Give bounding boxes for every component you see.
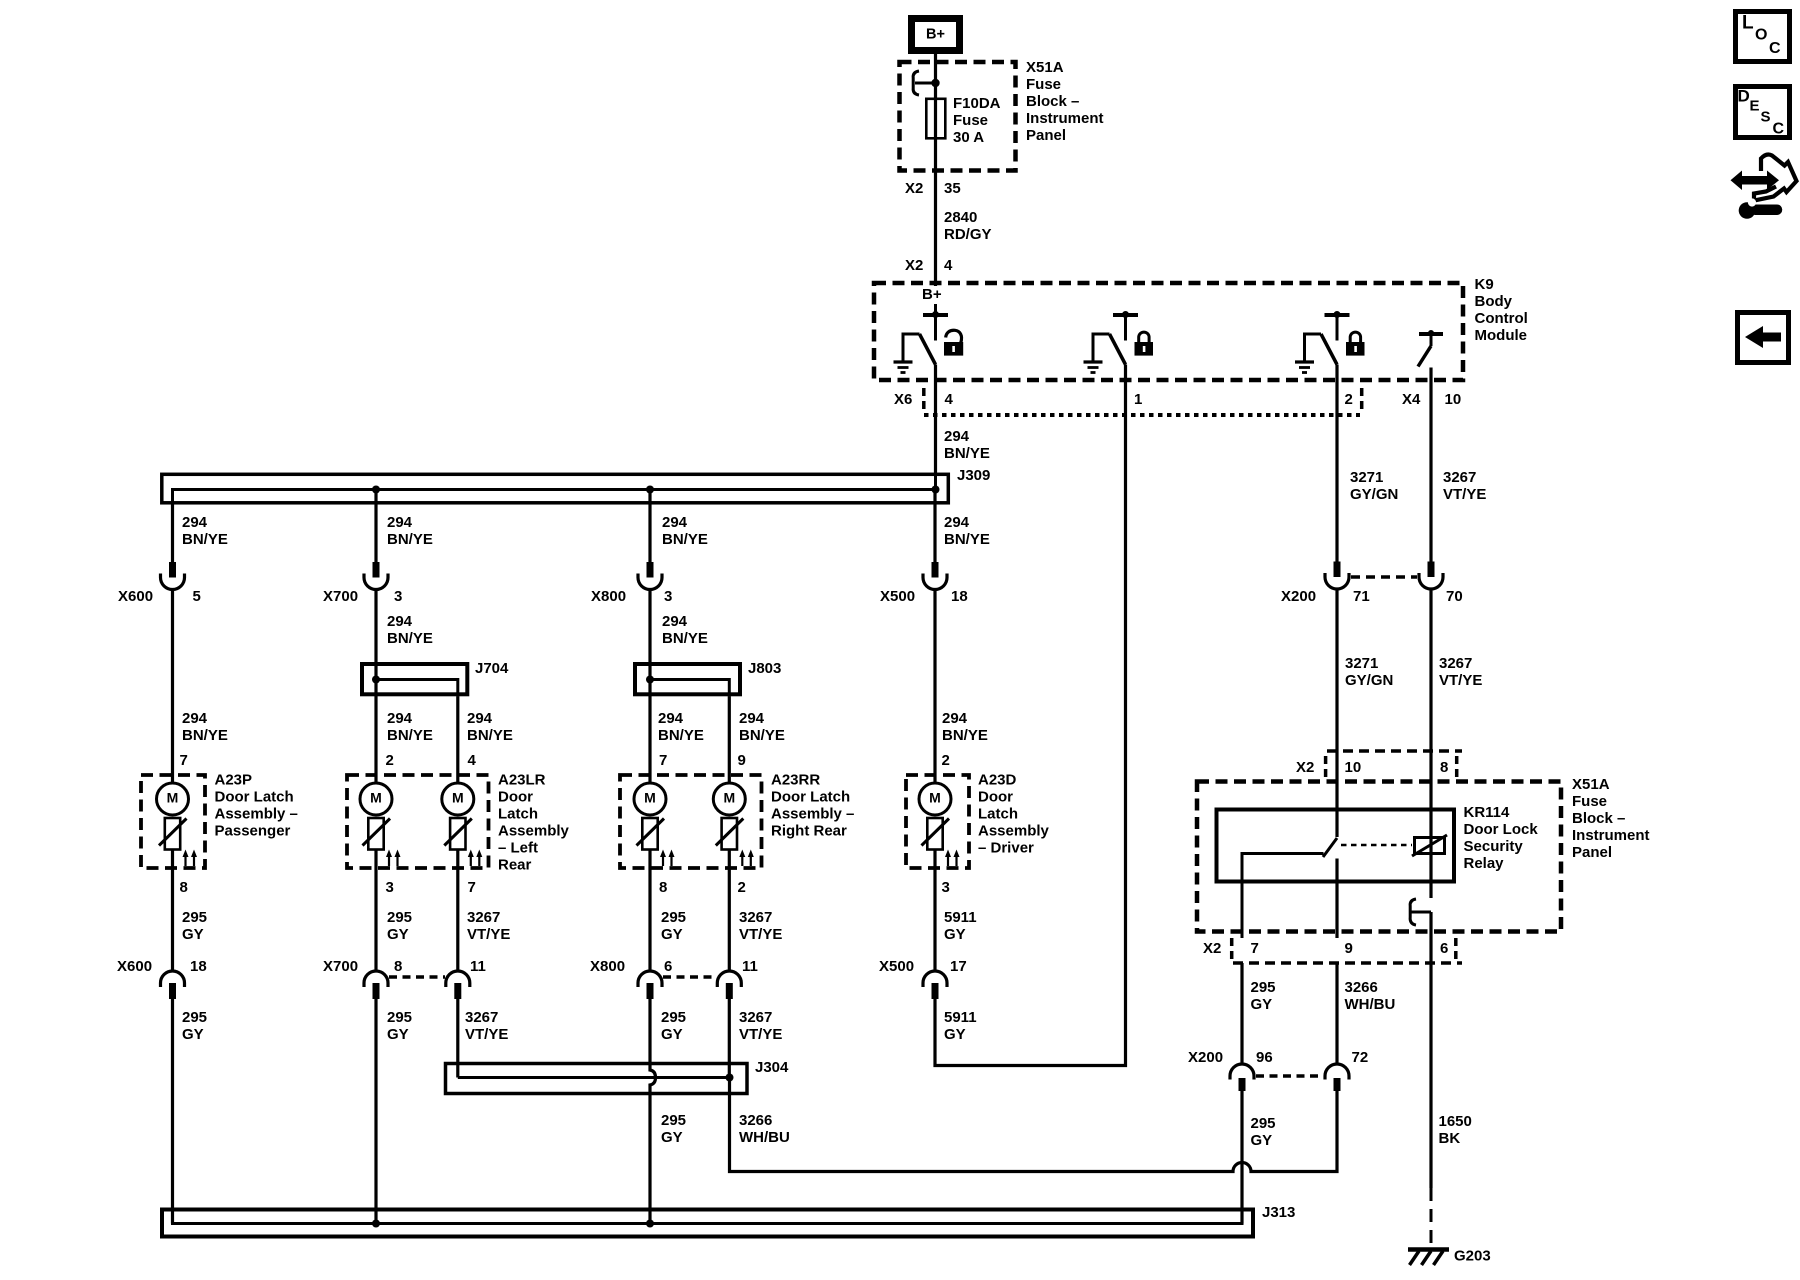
- door-latch motor M at x=650: [634, 783, 666, 815]
- svg-text:X2: X2: [905, 257, 923, 274]
- X200 96/72 link dashes: [1256, 1074, 1322, 1078]
- svg-text:X600: X600: [117, 958, 152, 975]
- connector X700-11: [446, 971, 470, 987]
- ground symbol: [894, 360, 913, 363]
- svg-text:18: 18: [190, 958, 207, 975]
- svg-text:GY: GY: [387, 1026, 409, 1043]
- BCM switch 4 (X4-10 output): [1428, 330, 1434, 336]
- svg-text:WH/BU: WH/BU: [739, 1129, 790, 1146]
- svg-text:C: C: [1769, 40, 1781, 57]
- svg-text:5911: 5911: [944, 1009, 977, 1026]
- door-latch motor M at x=376: [360, 783, 392, 815]
- svg-text:S: S: [1761, 109, 1771, 126]
- svg-text:295: 295: [661, 909, 686, 926]
- fuse clip symbol: [913, 71, 919, 95]
- svg-text:GY: GY: [1251, 1132, 1273, 1149]
- svg-text:295: 295: [1251, 1115, 1276, 1132]
- svg-text:B+: B+: [922, 286, 942, 303]
- wire: X500-18 to A23D: [933, 590, 936, 784]
- svg-text:3: 3: [942, 879, 950, 896]
- svg-text:295: 295: [387, 1009, 412, 1026]
- svg-text:295: 295: [661, 1009, 686, 1026]
- svg-text:71: 71: [1353, 588, 1370, 605]
- connector X700-11 link: [389, 975, 445, 979]
- svg-text:3267: 3267: [1443, 469, 1476, 486]
- door-latch motor M at x=935: [919, 783, 951, 815]
- wire: switch1 output down (294 BN/YE): [934, 365, 937, 473]
- svg-text:GY/GN: GY/GN: [1345, 672, 1393, 689]
- svg-text:X51A: X51A: [1026, 59, 1064, 76]
- svg-text:Assembly –: Assembly –: [771, 806, 854, 823]
- svg-text:X800: X800: [591, 588, 626, 605]
- wire: J309 to X500-18: [933, 490, 936, 563]
- svg-text:X700: X700: [323, 958, 358, 975]
- svg-text:D: D: [1738, 87, 1750, 106]
- svg-text:3266: 3266: [1345, 979, 1378, 996]
- svg-text:Assembly –: Assembly –: [215, 806, 298, 823]
- connector X500-17: [923, 971, 947, 987]
- lock actuator (PTC) symbol: [368, 818, 383, 850]
- svg-text:C: C: [1773, 120, 1785, 137]
- svg-text:J704: J704: [475, 660, 509, 677]
- svg-text:8: 8: [659, 879, 667, 896]
- svg-text:– Left: – Left: [498, 840, 538, 857]
- lock actuator (PTC) symbol: [927, 818, 942, 850]
- svg-text:WH/BU: WH/BU: [1345, 996, 1396, 1013]
- svg-text:2: 2: [738, 879, 746, 896]
- svg-text:Fuse: Fuse: [1572, 793, 1607, 810]
- double up-arrows: [184, 853, 186, 866]
- svg-text:M: M: [370, 790, 382, 806]
- wire: switch4 output down to X200-70: [1429, 368, 1432, 562]
- svg-text:Block –: Block –: [1026, 93, 1079, 110]
- svg-text:3267: 3267: [1439, 655, 1472, 672]
- svg-text:11: 11: [742, 958, 758, 975]
- svg-text:17: 17: [950, 958, 967, 975]
- svg-text:X500: X500: [880, 588, 915, 605]
- svg-text:BN/YE: BN/YE: [944, 445, 990, 462]
- door-latch motor M at x=172.5: [157, 783, 189, 815]
- svg-text:3266: 3266: [739, 1112, 772, 1129]
- svg-text:72: 72: [1352, 1049, 1369, 1066]
- svg-text:18: 18: [951, 588, 968, 605]
- relay common wire: [1242, 854, 1324, 939]
- relay coil: [1415, 838, 1445, 854]
- svg-text:K9: K9: [1475, 276, 1494, 293]
- svg-text:Latch: Latch: [978, 806, 1018, 823]
- svg-text:Instrument: Instrument: [1572, 827, 1650, 844]
- svg-text:7: 7: [659, 752, 667, 769]
- svg-text:3267: 3267: [467, 909, 500, 926]
- lock actuator (PTC) symbol: [450, 818, 465, 850]
- wire 1650 BK dashed to ground: [1430, 1188, 1433, 1247]
- svg-text:X200: X200: [1281, 588, 1316, 605]
- wire: X700-3 to J704: [374, 590, 377, 680]
- svg-text:2: 2: [942, 752, 950, 769]
- svg-text:L: L: [1742, 13, 1754, 34]
- connector X800-11: [717, 971, 741, 987]
- svg-text:J304: J304: [755, 1059, 789, 1076]
- BCM switch contact at x=1337: [1334, 311, 1341, 318]
- svg-text:VT/YE: VT/YE: [1443, 486, 1486, 503]
- svg-text:BN/YE: BN/YE: [182, 531, 228, 548]
- svg-text:A23P: A23P: [215, 772, 253, 789]
- svg-text:BN/YE: BN/YE: [942, 727, 988, 744]
- fuse block X51A (top) dashed box: [900, 62, 1016, 171]
- svg-text:J313: J313: [1262, 1204, 1295, 1221]
- svg-text:BN/YE: BN/YE: [944, 531, 990, 548]
- svg-text:X800: X800: [590, 958, 625, 975]
- svg-text:Door Latch: Door Latch: [771, 789, 850, 806]
- splice J704: [362, 664, 467, 694]
- DESC icon box: [1736, 87, 1790, 138]
- svg-text:3271: 3271: [1345, 655, 1378, 672]
- svg-text:294: 294: [387, 613, 413, 630]
- svg-text:294: 294: [739, 710, 765, 727]
- svg-text:X51A: X51A: [1572, 776, 1610, 793]
- svg-text:294: 294: [387, 514, 413, 531]
- wire: J704 right leg to A23LR pin4: [456, 696, 459, 783]
- connector X800-3: [647, 562, 654, 578]
- connector X700-3: [373, 562, 380, 578]
- svg-text:E: E: [1750, 98, 1760, 115]
- svg-text:VT/YE: VT/YE: [465, 1026, 508, 1043]
- svg-text:X2: X2: [1296, 759, 1314, 776]
- door latch assembly A23LR box: [347, 775, 489, 868]
- svg-text:96: 96: [1256, 1049, 1273, 1066]
- svg-text:6: 6: [1440, 940, 1448, 957]
- wire: X2-9 down (3266 WH/BU): [1335, 963, 1338, 1064]
- svg-text:Assembly: Assembly: [498, 823, 570, 840]
- svg-text:35: 35: [944, 180, 961, 197]
- wire: X800-3 to J803: [648, 590, 651, 680]
- svg-text:VT/YE: VT/YE: [739, 1026, 782, 1043]
- svg-text:5911: 5911: [944, 909, 977, 926]
- door-latch motor M at x=457.8: [442, 783, 474, 815]
- double up-arrows: [662, 853, 664, 866]
- body control module K9 dashed box: [874, 283, 1463, 380]
- svg-text:8: 8: [394, 958, 402, 975]
- connector X200-96: [1230, 1064, 1254, 1080]
- wire: latch leg down x=729.3: [728, 850, 731, 972]
- svg-text:Panel: Panel: [1026, 127, 1066, 144]
- connector X700-8: [364, 971, 388, 987]
- svg-text:M: M: [723, 790, 735, 806]
- svg-text:10: 10: [1445, 391, 1462, 408]
- svg-text:KR114: KR114: [1464, 804, 1511, 821]
- svg-text:BN/YE: BN/YE: [662, 531, 708, 548]
- connector strip dotted line: [924, 413, 1360, 417]
- svg-text:F10DA: F10DA: [953, 95, 1001, 112]
- connector X200-70: [1428, 562, 1435, 578]
- door-latch motor M at x=729.3: [713, 783, 745, 815]
- svg-text:A23D: A23D: [978, 772, 1017, 789]
- svg-text:B+: B+: [926, 27, 945, 43]
- svg-text:3267: 3267: [739, 1009, 772, 1026]
- svg-text:GY: GY: [387, 926, 409, 943]
- wire: X700-11 to J304: [456, 999, 459, 1078]
- svg-text:Rear: Rear: [498, 857, 532, 874]
- svg-text:X2: X2: [905, 180, 923, 197]
- fuse block X51A (relay) dashed box: [1197, 782, 1561, 932]
- svg-text:X2: X2: [1203, 940, 1221, 957]
- battery B+ box: [912, 19, 960, 51]
- svg-text:BN/YE: BN/YE: [658, 727, 704, 744]
- svg-text:BN/YE: BN/YE: [387, 727, 433, 744]
- svg-text:8: 8: [1440, 759, 1448, 776]
- wire: X200-96 to J313: [1240, 1091, 1243, 1224]
- wire: J309 to X800-3: [648, 490, 651, 563]
- svg-text:GY: GY: [661, 926, 683, 943]
- X200 link dashes: [1351, 575, 1417, 579]
- svg-text:M: M: [167, 790, 179, 806]
- svg-text:Block –: Block –: [1572, 810, 1625, 827]
- svg-text:Passenger: Passenger: [215, 823, 291, 840]
- double up-arrows: [470, 853, 472, 866]
- svg-text:Fuse: Fuse: [953, 112, 988, 129]
- svg-text:X600: X600: [118, 588, 153, 605]
- svg-text:7: 7: [180, 752, 188, 769]
- svg-text:9: 9: [1345, 940, 1353, 957]
- svg-text:Security: Security: [1464, 838, 1524, 855]
- svg-text:Body: Body: [1475, 293, 1513, 310]
- wire: J803 left leg to A23RR pin7: [648, 680, 651, 784]
- svg-text:Latch: Latch: [498, 806, 538, 823]
- svg-text:Assembly: Assembly: [978, 823, 1050, 840]
- svg-text:8: 8: [180, 879, 188, 896]
- wire: latch leg down x=650: [648, 850, 651, 972]
- svg-text:Door Lock: Door Lock: [1464, 821, 1539, 838]
- svg-text:294: 294: [944, 428, 970, 445]
- splice J304: [446, 1064, 748, 1094]
- svg-text:295: 295: [1251, 979, 1276, 996]
- svg-text:GY: GY: [661, 1026, 683, 1043]
- splice pack J309: [162, 474, 949, 503]
- svg-text:Door: Door: [978, 789, 1013, 806]
- double up-arrows: [947, 853, 949, 866]
- svg-text:3: 3: [664, 588, 672, 605]
- svg-text:295: 295: [182, 909, 207, 926]
- ground symbol: [1084, 360, 1103, 363]
- svg-text:294: 294: [658, 710, 684, 727]
- wire: X200-70 to relay coil: [1429, 590, 1432, 838]
- svg-text:3267: 3267: [465, 1009, 498, 1026]
- BCM switch contact at x=1125.5: [1122, 311, 1129, 318]
- svg-text:70: 70: [1446, 588, 1463, 605]
- connector X200-71: [1334, 562, 1341, 578]
- svg-text:M: M: [644, 790, 656, 806]
- lock actuator (PTC) symbol: [165, 818, 180, 850]
- svg-text:7: 7: [1251, 940, 1259, 957]
- svg-text:A23RR: A23RR: [771, 772, 820, 789]
- closed padlock icon: [1135, 342, 1154, 356]
- fuse F10DA element: [926, 99, 945, 139]
- svg-text:2: 2: [386, 752, 394, 769]
- wire: X600-5 to A23P: [171, 590, 174, 784]
- svg-text:4: 4: [468, 752, 477, 769]
- wire: latch leg down x=172.5: [171, 850, 174, 972]
- svg-text:10: 10: [1345, 759, 1362, 776]
- svg-text:Door Latch: Door Latch: [215, 789, 294, 806]
- svg-text:2840: 2840: [944, 209, 977, 226]
- svg-text:Instrument: Instrument: [1026, 110, 1104, 127]
- svg-text:Door: Door: [498, 789, 533, 806]
- wire: J803 right leg to A23RR pin9: [728, 696, 731, 783]
- svg-text:294: 294: [942, 710, 968, 727]
- wire: J309 to X600-5: [171, 505, 174, 563]
- svg-text:5: 5: [193, 588, 201, 605]
- splice pack J313: [162, 1210, 1253, 1237]
- splice J803: [635, 664, 740, 694]
- double up-arrows: [741, 853, 743, 866]
- BCM switch contact at x=935.5: [932, 311, 939, 318]
- svg-text:M: M: [929, 790, 941, 806]
- door latch assembly A23P box: [141, 775, 205, 868]
- svg-text:X6: X6: [894, 391, 912, 408]
- svg-text:30 A: 30 A: [953, 129, 984, 146]
- svg-text:M: M: [452, 790, 464, 806]
- svg-text:J803: J803: [748, 660, 781, 677]
- closed padlock icon: [1346, 342, 1365, 356]
- svg-text:9: 9: [738, 752, 746, 769]
- svg-text:BN/YE: BN/YE: [662, 630, 708, 647]
- wire: B+ feed down into BCM: [934, 54, 937, 286]
- relay pin9 wire: [1335, 859, 1338, 939]
- wire: latch leg down x=935: [933, 850, 936, 972]
- svg-text:3271: 3271: [1350, 469, 1383, 486]
- svg-text:BN/YE: BN/YE: [467, 727, 513, 744]
- svg-text:G203: G203: [1454, 1248, 1491, 1265]
- svg-text:294: 294: [944, 514, 970, 531]
- svg-text:BK: BK: [1439, 1130, 1461, 1147]
- open padlock icon: [944, 342, 963, 356]
- lock actuator (PTC) symbol: [722, 818, 737, 850]
- svg-text:Panel: Panel: [1572, 844, 1612, 861]
- svg-text:BN/YE: BN/YE: [739, 727, 785, 744]
- wire: X2-7 down (295 GY): [1240, 963, 1243, 1064]
- double up-arrows: [388, 853, 390, 866]
- svg-text:BN/YE: BN/YE: [387, 531, 433, 548]
- svg-text:X4: X4: [1402, 391, 1421, 408]
- svg-text:294: 294: [387, 710, 413, 727]
- wire: J704 left leg to A23LR pin2: [374, 680, 377, 784]
- wire: switch2 output down then to X500-17 (5911 GY): [935, 365, 1126, 1066]
- connector X500-18: [932, 562, 939, 578]
- wire: switch3 output down to X200-71: [1335, 365, 1338, 562]
- svg-text:295: 295: [387, 909, 412, 926]
- connector row X2 (10/8): [1327, 749, 1462, 753]
- clip symbol below coil: [1410, 899, 1416, 925]
- connector X600-5: [169, 562, 176, 578]
- door latch assembly A23D box: [906, 775, 969, 868]
- door latch assembly A23RR box: [620, 775, 762, 868]
- svg-text:X200: X200: [1188, 1049, 1223, 1066]
- connector X600-18: [161, 971, 185, 987]
- svg-text:Module: Module: [1475, 327, 1528, 344]
- svg-text:BN/YE: BN/YE: [387, 630, 433, 647]
- wire: X800-6 through J304 (jog) to J313: [650, 999, 656, 1224]
- svg-text:GY: GY: [1251, 996, 1273, 1013]
- connector X800-6: [638, 971, 662, 987]
- relay switch blade: [1323, 838, 1337, 857]
- svg-text:GY: GY: [182, 926, 204, 943]
- svg-text:Control: Control: [1475, 310, 1528, 327]
- svg-text:294: 294: [662, 613, 688, 630]
- wire: J309 to X700-3: [374, 490, 377, 563]
- svg-text:295: 295: [182, 1009, 207, 1026]
- svg-text:1: 1: [1134, 391, 1142, 408]
- LOC icon box: [1736, 12, 1790, 62]
- svg-text:4: 4: [944, 257, 953, 274]
- svg-text:11: 11: [470, 958, 486, 975]
- ground G203: [1408, 1247, 1449, 1252]
- ground symbol: [1295, 360, 1314, 363]
- relay KR114 box: [1217, 810, 1455, 882]
- wire: latch leg down x=376: [374, 850, 377, 972]
- svg-text:Right Rear: Right Rear: [771, 823, 847, 840]
- svg-text:GY: GY: [661, 1129, 683, 1146]
- connector row X2 (7/9/6): [1233, 961, 1462, 965]
- svg-text:J309: J309: [957, 467, 990, 484]
- svg-text:294: 294: [662, 514, 688, 531]
- svg-text:6: 6: [664, 958, 672, 975]
- svg-text:X700: X700: [323, 588, 358, 605]
- svg-text:4: 4: [945, 391, 954, 408]
- svg-text:GY: GY: [944, 926, 966, 943]
- svg-text:GY: GY: [182, 1026, 204, 1043]
- svg-text:– Driver: – Driver: [978, 840, 1034, 857]
- connector X800-11 link: [663, 975, 717, 979]
- svg-text:Fuse: Fuse: [1026, 76, 1061, 93]
- wire: X700-8 to J313: [374, 999, 377, 1224]
- svg-text:VT/YE: VT/YE: [739, 926, 782, 943]
- back arrow icon box: [1738, 313, 1789, 363]
- svg-text:BN/YE: BN/YE: [182, 727, 228, 744]
- svg-text:GY/GN: GY/GN: [1350, 486, 1398, 503]
- wire: J304 out 3266 WH/BU east to X200-72 riser (hop over 295GY): [730, 1078, 1338, 1172]
- svg-text:X500: X500: [879, 958, 914, 975]
- svg-text:RD/GY: RD/GY: [944, 226, 992, 243]
- wire through coil down: [1429, 837, 1432, 898]
- connector X200-72: [1325, 1064, 1349, 1080]
- svg-text:3: 3: [394, 588, 402, 605]
- X6 connector row labels: [922, 388, 926, 412]
- svg-text:3267: 3267: [739, 909, 772, 926]
- wire: X600-18 to J313: [171, 999, 174, 1224]
- svg-text:7: 7: [468, 879, 476, 896]
- wire: latch leg down x=457.8: [456, 850, 459, 972]
- svg-text:294: 294: [182, 514, 208, 531]
- relay actuate dashes: [1341, 844, 1412, 847]
- svg-text:1650: 1650: [1439, 1113, 1472, 1130]
- svg-text:O: O: [1755, 26, 1767, 43]
- wire: X200-71 to relay pole: [1335, 590, 1338, 838]
- svg-text:3: 3: [386, 879, 394, 896]
- svg-text:295: 295: [661, 1112, 686, 1129]
- wire: X800-11 to J304: [728, 999, 731, 1078]
- tools / swap icon: [1754, 155, 1797, 201]
- svg-text:294: 294: [182, 710, 208, 727]
- svg-text:A23LR: A23LR: [498, 772, 546, 789]
- lock actuator (PTC) symbol: [642, 818, 657, 850]
- svg-text:VT/YE: VT/YE: [467, 926, 510, 943]
- junction node: [931, 79, 939, 87]
- svg-text:VT/YE: VT/YE: [1439, 672, 1482, 689]
- svg-text:Relay: Relay: [1464, 855, 1505, 872]
- svg-text:GY: GY: [944, 1026, 966, 1043]
- svg-text:294: 294: [467, 710, 493, 727]
- svg-text:2: 2: [1345, 391, 1353, 408]
